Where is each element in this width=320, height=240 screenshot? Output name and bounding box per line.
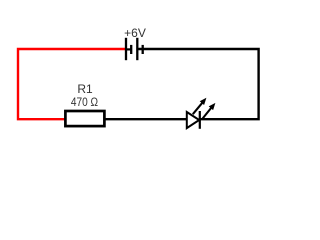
LED emission arrow 2 (lower-right) [202,103,216,120]
wire: black from battery second cell to top-right corner and down to LED cathode [137,49,258,119]
svg-text:470 Ω: 470 Ω [71,95,98,109]
battery B1 tall plate 1 (+) [125,38,127,60]
svg-text:+6V: +6V [124,26,146,40]
LED D1 triangle (anode) [187,112,199,128]
battery B1 tall plate 2 [136,38,138,60]
battery U1 plate stub between + plate and first short plate [126,48,131,50]
wire: black from resistor right to LED anode [105,118,187,120]
LED D1 cathode bar [199,111,201,129]
LED emission arrow 1 (upper-left) [193,98,207,114]
wire: red positive loop (resistor left to left rail, up, to battery +) [18,49,125,119]
battery B1 short plate 1 [130,45,132,54]
battery B1 short plate 2 (-) [142,45,144,54]
resistor R1 body [65,111,104,126]
